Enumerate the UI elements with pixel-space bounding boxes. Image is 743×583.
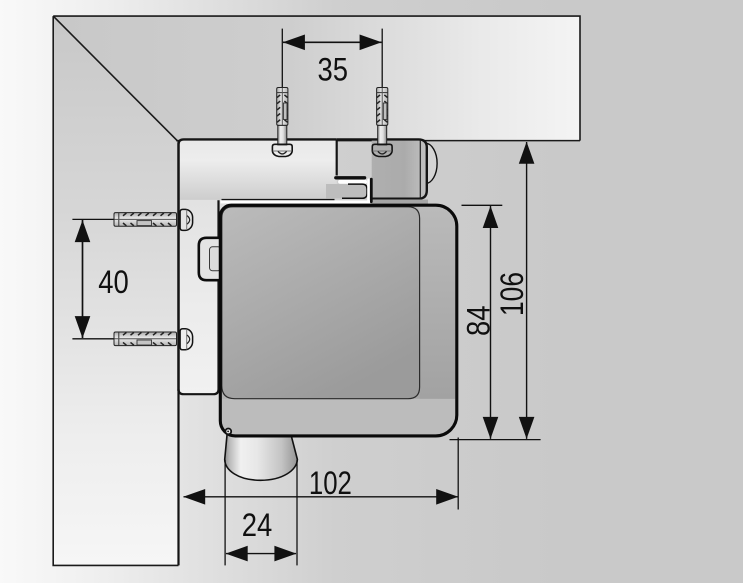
arrow 102 left — [183, 489, 205, 505]
corner diagonal — [53, 16, 177, 141]
dimension 35 line — [283, 41, 382, 43]
extension line 24 right — [296, 460, 298, 566]
svg-text:102: 102 — [309, 465, 352, 501]
extension line 84/106 bottom — [450, 439, 541, 441]
arrow 84 bottom — [483, 417, 499, 439]
cassette inner panel — [222, 207, 420, 399]
arrow 35 left — [283, 35, 305, 51]
outlet cone — [225, 434, 298, 480]
ceiling bottom edge — [176, 140, 580, 142]
wall dowel lower — [114, 332, 177, 346]
hook right wall stroke — [370, 179, 373, 202]
headrail piece panel line — [419, 140, 421, 199]
wall screw upper — [180, 209, 193, 230]
wall screw lower — [180, 329, 193, 350]
white gap above cassette — [221, 200, 371, 203]
arrow 24 right — [274, 546, 296, 562]
extension line 102 right — [457, 438, 459, 510]
wall slab — [53, 16, 177, 565]
svg-text:40: 40 — [98, 264, 129, 300]
wall dowel upper — [114, 213, 177, 227]
dimension 106 line — [526, 142, 528, 439]
arrow 24 left — [226, 546, 248, 562]
dimension 24 line — [226, 553, 296, 555]
mounting plate top part — [179, 139, 337, 200]
ceiling slab — [53, 16, 580, 141]
extension line 84 top — [462, 204, 503, 206]
hook white slot — [340, 180, 365, 184]
plate outline bottom strip — [179, 200, 219, 394]
arrow 102 right — [436, 489, 458, 505]
dimension 84 line — [490, 206, 492, 439]
headrail top piece — [337, 139, 427, 198]
arrow 40 bottom — [75, 316, 91, 338]
arrow 106 top — [519, 142, 535, 164]
wall face line — [177, 140, 179, 565]
gray under headrail piece — [371, 200, 428, 205]
svg-text:35: 35 — [318, 52, 349, 88]
extension line 35 right — [381, 29, 383, 89]
cassette lip line — [222, 199, 335, 201]
ceiling screw left — [272, 125, 292, 156]
svg-text:106: 106 — [494, 272, 530, 316]
plate outline left+top — [179, 139, 337, 391]
cassette bottom band — [222, 399, 455, 435]
svg-text:24: 24 — [242, 507, 273, 543]
tab inner detail — [210, 247, 222, 271]
headrail end cap bump — [425, 143, 437, 183]
extension line 40 lower (screw axis) — [72, 338, 171, 340]
cassette outline — [220, 205, 457, 436]
cord loop — [225, 429, 231, 435]
cassette right band — [420, 207, 456, 399]
arrow 106 bottom — [519, 417, 535, 439]
wall outline — [53, 16, 178, 565]
cassette clip tab — [199, 238, 222, 280]
ceiling dowel right — [377, 88, 388, 127]
dimension 102 line — [184, 496, 459, 498]
extension line 35 left — [281, 29, 283, 89]
extension line 24 left — [224, 460, 226, 566]
ceiling outline — [53, 16, 580, 141]
cassette body — [220, 205, 457, 436]
hook tongue — [326, 184, 367, 198]
arrow 35 right — [360, 35, 382, 51]
hook white channel — [367, 180, 370, 201]
headrail top piece outline — [337, 139, 427, 198]
arrow 84 top — [483, 206, 499, 228]
ceiling screw right — [372, 125, 392, 156]
mounting plate wall strip — [179, 200, 219, 394]
hook slot upper stroke — [336, 176, 365, 179]
svg-text:84: 84 — [460, 305, 496, 336]
plate seam — [336, 139, 338, 175]
ceiling dowel left — [277, 88, 288, 127]
extension line 40 upper (screw axis) — [72, 218, 171, 220]
arrow 40 top — [75, 220, 91, 242]
dimension 40 line — [82, 220, 84, 338]
hook tongue outline — [342, 184, 367, 198]
